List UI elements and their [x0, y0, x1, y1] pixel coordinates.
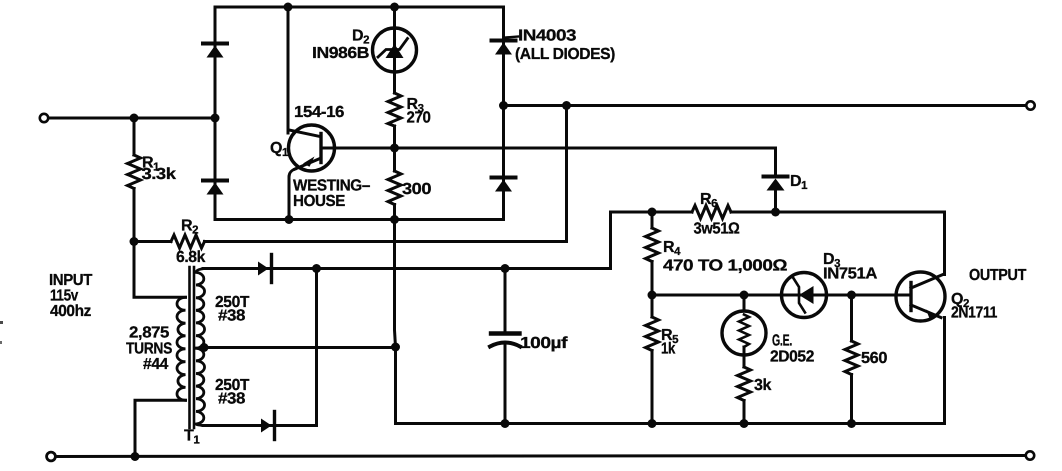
node: 300/box-bottom junction	[390, 215, 399, 224]
wire: R2 junction down to primary top	[134, 242, 186, 298]
svg-text:270: 270	[407, 110, 431, 127]
wire: center tap to negative riser	[202, 346, 396, 349]
transformer T1 primary winding 2,875 TURNS #44	[177, 297, 186, 400]
wire: regulator bottom rail	[396, 422, 945, 425]
svg-text:IN986B: IN986B	[312, 45, 369, 62]
rectifier diode (bottom, IN4003)	[261, 412, 275, 440]
node: collector/top-rail junction	[284, 3, 293, 12]
svg-text:TURNS: TURNS	[126, 341, 173, 358]
resistor R4 470-1000ohm	[646, 212, 659, 295]
wire: Q2 emitter drop / regulator right side bottom	[943, 318, 946, 424]
terminal: output bottom right	[1026, 451, 1034, 459]
wire: D2 top lead	[393, 7, 396, 30]
node: cap/top-row junction	[501, 264, 510, 273]
wire: riser from output rail down to R2 row	[565, 106, 568, 242]
svg-text:OUTPUT: OUTPUT	[969, 267, 1027, 284]
wire: Q1 base row to D1 corner	[321, 147, 776, 150]
svg-text:2D052: 2D052	[770, 349, 814, 366]
diode bridge top-right (IN4003)	[492, 37, 519, 55]
wire: Q1 collector from top rail	[287, 7, 290, 133]
node: thermistor/base-row junction	[740, 291, 749, 300]
wire: 3k bottom lead	[743, 401, 746, 424]
thermistor G.E. 2D052 (circled resistor)	[722, 295, 766, 367]
wire: regulator base row	[652, 294, 911, 297]
node: 560/base-row junction	[847, 291, 856, 300]
node: R3/base-row junction	[390, 144, 399, 153]
svg-text:3k: 3k	[754, 377, 771, 394]
wire: 300 bottom lead to box bottom	[393, 205, 396, 220]
wire: negative riser from box bottom to regulator bottom rail	[395, 220, 396, 424]
diode bridge bottom-right (IN4003)	[492, 178, 516, 192]
resistor 300	[388, 171, 401, 205]
rectifier diode (top, IN4003)	[258, 255, 272, 283]
terminal: input top	[40, 114, 48, 122]
capacitor 100uf	[490, 269, 520, 424]
node: Q1 emitter/bottom-rail junction	[285, 215, 294, 224]
node: input/R1 junction	[130, 114, 139, 123]
wire: input top lead	[49, 117, 216, 120]
svg-text:G.E.: G.E.	[772, 333, 792, 350]
svg-text:154-16: 154-16	[294, 104, 345, 121]
zener diode D3 IN751A (circled)	[782, 273, 827, 318]
svg-text:IN751A: IN751A	[823, 266, 878, 283]
node: secondary center tap	[200, 343, 209, 352]
diode D1	[764, 177, 788, 213]
scan speck	[0, 341, 2, 344]
wire: secondary bottom row	[203, 424, 317, 427]
wire: top box top rail	[215, 6, 504, 9]
wire: D1 top lead from base row	[774, 148, 777, 176]
diode bridge top-left (IN4003)	[203, 44, 227, 58]
wire: secondary top row	[203, 267, 611, 270]
wire: bottom rail	[56, 456, 1026, 457]
node: D1/rail junction	[771, 208, 780, 217]
resistor R2 6.8k (horizontal)	[134, 235, 567, 248]
node: cap/bottom-rail junction	[501, 419, 510, 428]
wire: Q1 emitter to box bottom	[289, 169, 295, 220]
transistor Q2 2N1711	[896, 272, 945, 321]
diode bridge bottom-left (IN4003)	[203, 181, 227, 195]
svg-text:(ALL DIODES): (ALL DIODES)	[515, 46, 615, 63]
node: primary/bottom-rail junction	[131, 452, 140, 461]
wire: primary bottom lead	[135, 400, 186, 456]
svg-text:100µf: 100µf	[520, 335, 568, 352]
terminal: output top right	[1026, 101, 1034, 109]
wire: rectifier loop vertical	[315, 269, 318, 426]
terminal: input bottom	[47, 452, 56, 461]
wire: output top rail	[504, 104, 1027, 107]
wire: top box right vertical	[502, 7, 505, 220]
wire: Q2 collector riser / regulator right side top	[943, 212, 946, 275]
node: rectifier output / loop junction	[312, 264, 321, 273]
svg-text:2,875: 2,875	[129, 325, 170, 342]
svg-text:#38: #38	[218, 308, 246, 325]
svg-text:6.8k: 6.8k	[176, 249, 205, 266]
transistor Q1 (154-16 WESTINGHOUSE)	[289, 125, 335, 171]
svg-text:HOUSE: HOUSE	[293, 193, 346, 210]
svg-text:3w51Ω: 3w51Ω	[694, 221, 741, 238]
node: R4/rail junction	[648, 208, 657, 217]
wire: 300 top lead	[393, 148, 396, 171]
svg-text:470 TO 1,000Ω: 470 TO 1,000Ω	[663, 258, 788, 275]
node: center-tap/riser junction	[391, 343, 400, 352]
svg-text:INPUT: INPUT	[49, 272, 93, 289]
resistor R5 1k	[646, 295, 659, 424]
svg-text:1k: 1k	[661, 341, 675, 358]
wire: top box bottom rail	[215, 218, 504, 221]
resistor 560	[845, 295, 858, 424]
wire: R3 to base row	[393, 126, 396, 148]
node: R5/bottom-rail junction	[648, 419, 657, 428]
transformer T1 core	[190, 267, 195, 428]
node: R4/R5/base-row junction	[648, 291, 657, 300]
resistor R1 3.3k	[128, 118, 141, 242]
wire: top row to regulator rail riser	[609, 212, 612, 269]
wire: top box left vertical	[214, 7, 217, 220]
svg-text:#44: #44	[143, 356, 168, 373]
transformer T1 secondary winding 250T #38 (lower)	[196, 348, 205, 425]
node: rail/R2-riser junction	[562, 101, 571, 110]
wire: D2 to R3	[393, 72, 396, 94]
svg-text:#38: #38	[218, 391, 246, 408]
svg-text:WESTING–: WESTING–	[293, 178, 370, 195]
wire: regulator top rail	[611, 211, 693, 214]
node: D2/top-rail junction	[390, 3, 399, 12]
node: 3k/bottom-rail junction	[740, 419, 749, 428]
svg-text:560: 560	[861, 350, 888, 367]
svg-text:2N1711: 2N1711	[951, 305, 997, 322]
node: output rail / box right junction	[499, 101, 508, 110]
transformer T1 secondary winding 250T #38 (upper)	[196, 269, 205, 349]
svg-text:IN4003: IN4003	[518, 28, 577, 45]
node: 560/bottom-rail junction	[847, 419, 856, 428]
svg-text:300: 300	[402, 181, 432, 198]
zener diode D2 IN986B (circled)	[373, 28, 417, 72]
resistor R6 3w51ohm (horizontal)	[692, 206, 731, 219]
svg-text:400hz: 400hz	[50, 303, 91, 320]
node: R1/R2 junction	[130, 237, 139, 246]
svg-text:3.3k: 3.3k	[142, 166, 177, 183]
resistor 3k	[738, 367, 751, 401]
svg-text:115v: 115v	[50, 288, 78, 305]
scan speck	[0, 321, 3, 324]
node: input/bridge junction	[211, 114, 220, 123]
resistor R3 270	[388, 93, 401, 126]
